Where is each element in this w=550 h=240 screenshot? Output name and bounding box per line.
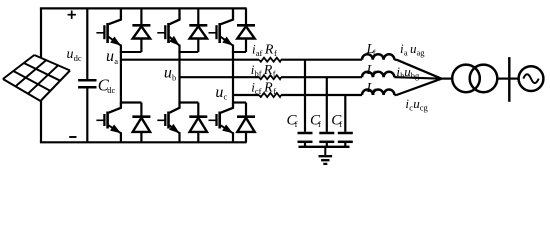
svg-text:f: f [295,119,298,129]
svg-text:R: R [263,63,273,78]
svg-text:f: f [274,48,277,58]
svg-text:a: a [404,48,408,58]
svg-text:b: b [172,73,176,83]
svg-text:f: f [373,68,376,78]
svg-text:f: f [339,119,342,129]
svg-text:f: f [273,86,276,96]
svg-text:bg: bg [411,71,420,81]
svg-text:u: u [106,48,114,65]
svg-text:dc: dc [74,53,82,63]
svg-text:f: f [273,69,276,79]
svg-text:u: u [164,65,172,82]
svg-text:a: a [114,56,118,66]
svg-text:ag: ag [417,48,426,58]
svg-text:cg: cg [420,102,429,112]
svg-text:R: R [263,81,273,96]
svg-text:bf: bf [255,68,262,78]
svg-text:dc: dc [107,85,115,95]
svg-text:cf: cf [255,86,262,96]
svg-text:u: u [67,47,74,62]
svg-text:f: f [373,86,376,96]
svg-text:f: f [373,47,376,57]
svg-text:f: f [318,119,321,129]
svg-text:af: af [256,48,263,58]
svg-text:c: c [224,92,228,102]
svg-text:R: R [264,43,274,58]
svg-text:u: u [215,84,223,101]
